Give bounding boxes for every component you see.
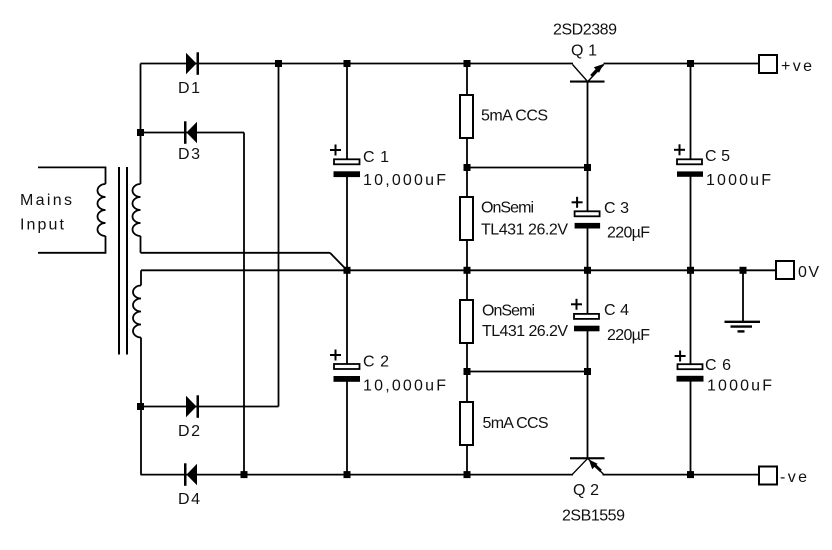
transformer secondary bottom winding [133,286,141,338]
svg-text:C 5: C 5 [705,148,730,165]
wire top rail right segment [604,63,760,65]
wire C3 chain [587,168,589,271]
capacitor C2 [330,350,360,382]
label C1 [363,149,446,189]
node 0V x743 (ground tap) [740,267,747,274]
wire D3 row [141,132,245,134]
diode D2 [186,395,199,418]
label D4 [178,491,200,508]
label C5 [705,148,771,189]
wire C6 to bottom rail [690,382,692,475]
svg-text:D 1: D 1 [178,80,200,97]
svg-text:2SB1559: 2SB1559 [562,508,625,525]
svg-text:5mA CCS: 5mA CCS [481,108,548,125]
wire Q2 base vertical [587,372,589,458]
label D3 [178,146,200,163]
wire C1-C2 vertical upper [346,64,348,160]
transformer primary leads [38,167,106,252]
transistor Q2 [570,457,605,474]
diode D1 [186,52,199,75]
diode D3 [184,121,197,144]
svg-text:220µF: 220µF [607,225,650,242]
label CCS2 [483,415,549,432]
wire C5 to 0V [690,177,692,271]
svg-text:C 2: C 2 [363,354,389,371]
svg-text:TL431 26.2V: TL431 26.2V [481,222,568,239]
svg-text:OnSemi: OnSemi [482,302,535,319]
node 0V x467 [464,267,471,274]
terminal +ve [759,55,812,75]
resistor CCS1 (5mA CCS) [460,95,473,138]
capacitor C4 [571,299,600,332]
wire Q1 base vertical [587,82,589,167]
svg-text:Q 1: Q 1 [571,42,597,59]
wire secondary bottom upper lead [140,270,142,285]
node ref y167 x467 [464,164,471,171]
svg-text:D 4: D 4 [178,491,200,508]
node top rail x278 [275,60,282,67]
wire TL431 lower chain [466,270,468,474]
capacitor C1 [330,145,360,178]
label D1 [178,80,200,97]
terminal 0V [776,261,819,281]
regulator U1 OnSemi TL431 [460,197,473,240]
svg-text:C 3: C 3 [604,200,629,217]
transformer secondary top winding [133,184,141,236]
label Mains Input [20,192,72,234]
svg-text:TL431 26.2V: TL431 26.2V [482,323,568,340]
svg-text:C 6: C 6 [705,357,731,374]
regulator U2 OnSemi TL431 [460,300,473,343]
svg-text:2SD2389: 2SD2389 [553,22,617,39]
wire ref horizontal y167 [467,167,588,169]
label Q2 [573,482,599,499]
svg-text:D 3: D 3 [178,146,200,163]
wire ref horizontal y371 [467,371,588,373]
transformer core [119,167,127,355]
svg-text:5mA CCS: 5mA CCS [483,415,549,432]
label Q2 part number [562,508,625,525]
label Q1 part number [553,22,617,39]
svg-text:220µF: 220µF [607,327,650,344]
wire secondary top lower lead [140,236,142,253]
node top rail x347 [344,60,351,67]
resistor CCS2 (5mA CCS) [460,402,473,445]
label CCS1 [481,108,548,125]
capacitor C6 [675,351,704,382]
node 0V x347 [344,267,351,274]
node bottom rail x347 [344,471,351,478]
capacitor C3 [572,197,601,229]
svg-text:OnSemi: OnSemi [481,200,534,217]
label U2 [482,302,568,339]
diode D4 [184,463,197,486]
node D3 row x140 [137,129,144,136]
node 0V x587 [584,267,591,274]
terminal -ve [759,467,807,487]
label C2 [363,354,446,395]
node ref y167 x587 [584,164,591,171]
wire secondary bottom lead vertical [140,338,142,475]
wire C1 to 0V [346,177,348,271]
label C3 [604,200,650,241]
label C4 [604,302,650,344]
ground [725,270,761,331]
wire 0V to C2 [346,270,348,363]
label C6 [705,357,772,395]
wire CCS1 chain [466,64,468,271]
svg-text:C 1: C 1 [363,149,389,166]
svg-text:D 2: D 2 [178,423,200,440]
wire bottom rail right segment [603,474,760,476]
transistor Q1 [570,64,605,83]
wire C4 chain [587,270,589,371]
label Q1 [571,42,597,59]
wire C2 to bottom rail [346,382,348,475]
wire 0V rail [141,269,776,271]
svg-text:Mains: Mains [20,192,72,209]
node ref y371 x467 [464,368,471,375]
node bottom rail x467 [464,471,471,478]
capacitor C5 [674,144,703,176]
svg-text:Q 2: Q 2 [573,482,599,499]
node bottom rail x690 [687,471,694,478]
label U1 [481,200,568,239]
wire center tap horizontal [141,252,331,254]
node ref y371 x587 [584,368,591,375]
svg-text:-ve: -ve [780,469,807,486]
label D2 [178,423,200,440]
svg-text:10,000uF: 10,000uF [363,172,446,189]
node top rail x690 [687,60,694,67]
svg-text:10,000uF: 10,000uF [363,377,446,394]
wire center tap diagonal [330,253,347,270]
wire C5 upper [690,64,692,160]
svg-text:+ve: +ve [781,58,812,75]
node 0V x690 [687,267,694,274]
wire top rail left segment [141,63,574,65]
svg-text:C 4: C 4 [604,302,629,319]
transformer primary winding [98,184,106,236]
wire secondary top lead vertical [140,64,142,185]
node bottom rail x244 [241,471,248,478]
svg-text:0V: 0V [798,264,819,281]
wire D2 row [141,406,279,408]
wire D3 anode vertical x244 [243,133,245,475]
node top rail x467 [464,60,471,67]
node D2 row x140 [137,403,144,410]
wire D2 cathode vertical x278 [278,64,280,407]
wire bottom rail left segment [141,474,574,476]
wire 0V to C6 [690,270,692,363]
